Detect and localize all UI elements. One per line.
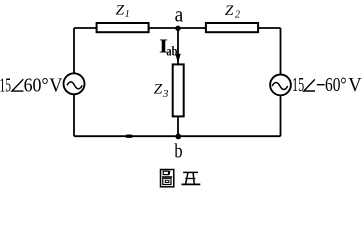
svg-text:15: 15 — [0, 75, 11, 96]
svg-text:60°: 60° — [325, 75, 347, 96]
svg-text:b: b — [174, 141, 182, 162]
svg-text:Z: Z — [225, 2, 234, 19]
svg-text:Z: Z — [116, 2, 125, 19]
svg-text:60°: 60° — [24, 75, 49, 96]
svg-text:3: 3 — [162, 88, 169, 100]
svg-text:2: 2 — [235, 10, 240, 21]
svg-text:V: V — [49, 75, 62, 96]
svg-text:1: 1 — [125, 9, 130, 20]
svg-text:ab: ab — [166, 44, 177, 59]
svg-text:15: 15 — [292, 75, 304, 96]
svg-text:a: a — [175, 1, 184, 26]
svg-text:Z: Z — [154, 81, 163, 98]
svg-text:V: V — [348, 75, 361, 96]
